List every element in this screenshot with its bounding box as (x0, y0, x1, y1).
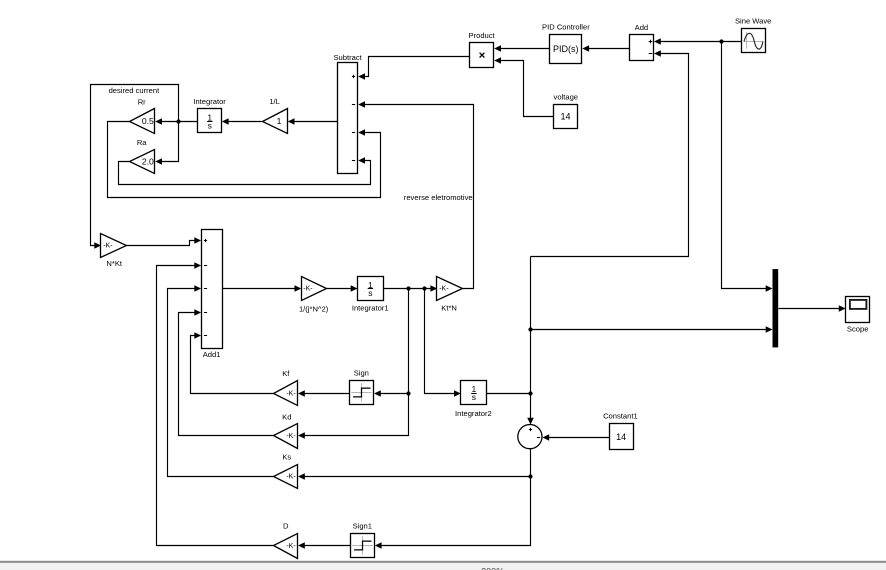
svg-text:1: 1 (277, 116, 282, 126)
svg-text:1/L: 1/L (269, 97, 280, 106)
svg-text:Sign1: Sign1 (353, 522, 372, 531)
svg-text:0.5: 0.5 (142, 116, 154, 126)
svg-text:Ra: Ra (137, 138, 147, 147)
svg-text:s: s (472, 392, 476, 402)
svg-text:14: 14 (616, 432, 626, 442)
svg-text:s: s (368, 288, 372, 298)
svg-text:PID(s): PID(s) (553, 44, 579, 54)
svg-text:Integrator2: Integrator2 (455, 409, 492, 418)
svg-text:Subtract: Subtract (333, 53, 362, 62)
svg-text:Scope: Scope (847, 325, 869, 334)
svg-text:14: 14 (560, 112, 570, 122)
svg-text:N*Kt: N*Kt (106, 259, 123, 268)
svg-text:PID Controller: PID Controller (542, 23, 590, 32)
svg-text:Kt*N: Kt*N (441, 304, 457, 313)
svg-text:-K-: -K- (439, 286, 449, 293)
svg-text:-K-: -K- (286, 390, 296, 397)
svg-text:-K-: -K- (286, 474, 296, 481)
svg-text:Rr: Rr (138, 98, 146, 107)
svg-text:s: s (208, 120, 212, 130)
svg-text:Sign: Sign (354, 369, 369, 378)
svg-text:D: D (283, 522, 289, 531)
svg-text:Kd: Kd (282, 412, 291, 421)
svg-text:Integrator1: Integrator1 (352, 304, 389, 313)
svg-text:1/(j*N^2): 1/(j*N^2) (299, 305, 329, 314)
svg-text:reverse eletromotive: reverse eletromotive (404, 193, 473, 202)
svg-text:Product: Product (469, 31, 496, 40)
svg-text:-K-: -K- (286, 543, 296, 550)
svg-text:Ks: Ks (282, 452, 291, 461)
svg-text:2.0: 2.0 (142, 156, 154, 166)
svg-text:-K-: -K- (303, 286, 313, 293)
svg-text:Sine Wave: Sine Wave (735, 17, 771, 26)
svg-text:Add: Add (635, 23, 649, 32)
svg-text:Integrator: Integrator (193, 97, 226, 106)
svg-text:-K-: -K- (286, 433, 296, 440)
svg-text:200%: 200% (481, 566, 504, 570)
svg-text:voltage: voltage (554, 92, 579, 101)
svg-text:Add1: Add1 (203, 350, 221, 359)
svg-text:Kf: Kf (282, 369, 290, 378)
svg-text:-K-: -K- (103, 243, 113, 250)
svg-text:Constant1: Constant1 (603, 412, 638, 421)
svg-text:desired current: desired current (109, 86, 161, 95)
